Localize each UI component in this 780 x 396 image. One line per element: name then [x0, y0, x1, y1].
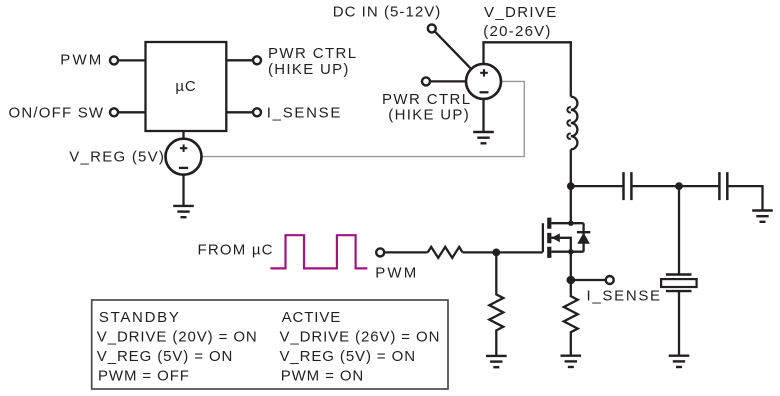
svg-text:µC: µC — [175, 78, 196, 95]
svg-text:PWR CTRL: PWR CTRL — [268, 45, 358, 62]
svg-text:(20-26V): (20-26V) — [483, 23, 551, 40]
svg-text:STANDBY: STANDBY — [99, 309, 181, 326]
svg-text:V_DRIVE (26V) = ON: V_DRIVE (26V) = ON — [280, 328, 441, 345]
svg-text:(HIKE UP): (HIKE UP) — [268, 61, 350, 78]
svg-text:I_SENSE: I_SENSE — [267, 105, 342, 122]
svg-text:ACTIVE: ACTIVE — [282, 309, 342, 326]
svg-text:V_DRIVE: V_DRIVE — [484, 4, 558, 21]
svg-text:V_REG (5V) = ON: V_REG (5V) = ON — [280, 348, 416, 365]
svg-text:I_SENSE: I_SENSE — [587, 287, 662, 304]
svg-text:V_REG (5V) = ON: V_REG (5V) = ON — [97, 348, 233, 365]
svg-text:V_DRIVE (20V) = ON: V_DRIVE (20V) = ON — [97, 328, 258, 345]
svg-text:PWM = OFF: PWM = OFF — [98, 367, 190, 384]
svg-text:PWM: PWM — [60, 51, 103, 68]
svg-text:ON/OFF SW: ON/OFF SW — [9, 105, 105, 122]
svg-text:V_REG (5V): V_REG (5V) — [69, 148, 165, 165]
svg-text:FROM µC: FROM µC — [198, 242, 274, 259]
svg-text:DC IN (5-12V): DC IN (5-12V) — [333, 4, 442, 21]
svg-text:(HIKE UP): (HIKE UP) — [388, 107, 470, 124]
svg-text:PWM: PWM — [375, 265, 418, 282]
svg-text:PWM = ON: PWM = ON — [281, 367, 364, 384]
